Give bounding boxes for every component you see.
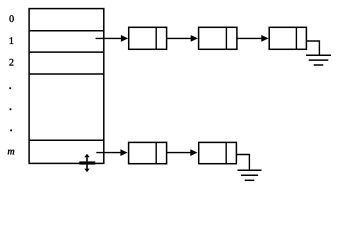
label m [8, 150, 14, 155]
label 2 [9, 59, 13, 66]
ellipsis dot 3 [10, 130, 12, 132]
hash table array outline [29, 9, 104, 164]
label 1 [10, 37, 14, 44]
node B1 (list m, first) [129, 142, 167, 163]
row divider 1/2 [29, 51, 104, 53]
label 0 [9, 15, 13, 22]
ground (null) symbol, list 1 [306, 55, 331, 65]
node A2 (list 1, second) [199, 27, 237, 49]
wire: slot 1 pointer arrow [96, 35, 129, 42]
node A1 (list 1, first) [129, 27, 167, 49]
wire: B2 null link [236, 155, 249, 171]
wire: A3 null link [306, 41, 319, 55]
wire: slot m pointer arrow [96, 149, 127, 156]
wire: A1 to A2 arrow [167, 35, 198, 42]
node A3 (list 1, last) [269, 27, 306, 49]
node B2 (list m, last) [199, 142, 237, 163]
resize cursor artifact: down arrow [84, 165, 89, 173]
wire: A2 to A3 arrow [237, 35, 269, 42]
ground (null) symbol, list m [238, 170, 262, 180]
row divider 2/3 [29, 73, 104, 75]
ellipsis dot 1 [9, 87, 11, 89]
row divider above m [29, 139, 104, 141]
ellipsis dot 2 [10, 108, 12, 110]
wire: B1 to B2 arrow [167, 149, 198, 156]
resize cursor artifact: thick bar [79, 161, 95, 164]
row divider 0/1 [29, 30, 104, 32]
resize cursor artifact: up arrow [84, 154, 89, 162]
